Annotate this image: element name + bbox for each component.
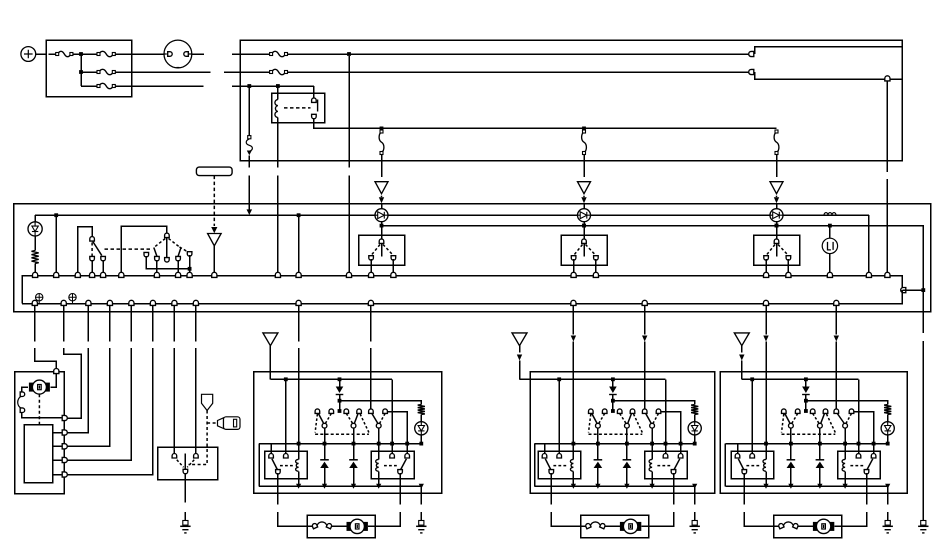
right rear window module dashed link bbox=[782, 433, 836, 435]
connector upper bus x=103.1 bbox=[101, 272, 106, 277]
wire harness bbox=[152, 305, 154, 341]
switch 3 center arm bbox=[776, 244, 778, 257]
right rear window module feed wire A bbox=[765, 305, 767, 334]
wire harness w2 bbox=[63, 305, 65, 341]
wire F2 to fuse box edge bbox=[115, 53, 132, 55]
dashed switch 2 left bbox=[574, 245, 583, 256]
main switch assembly box bbox=[14, 204, 931, 312]
wire control unit stub bbox=[53, 474, 62, 476]
left rear window module relay 2 dashed bbox=[657, 465, 671, 467]
dashed arm far right bbox=[180, 247, 189, 252]
wire row 2 resumed bbox=[224, 71, 270, 73]
right rear window module window switch bbox=[804, 409, 808, 413]
wire right feed lower bbox=[886, 179, 888, 276]
fuse F8 bbox=[582, 132, 587, 153]
dashed switch 1 left bbox=[371, 245, 380, 256]
left rear window module relay 1 coil bbox=[572, 444, 574, 460]
dashed knob link left bbox=[177, 460, 184, 468]
front passenger window module control feed line bbox=[270, 378, 392, 380]
right rear window module dashed blade 2 bbox=[813, 414, 819, 424]
ignition switch SW1 bbox=[164, 40, 192, 68]
dashed knob link right bbox=[187, 460, 194, 468]
connector upper bus x=868.9 bbox=[866, 272, 871, 277]
wire receiver to bus bbox=[213, 246, 215, 276]
wire into diode 1 bbox=[381, 204, 383, 209]
window lock center arm bbox=[166, 238, 168, 257]
front passenger window module wire to switch center bbox=[339, 401, 341, 410]
right rear window module wire to switch center bbox=[805, 401, 807, 410]
front passenger window module dashed link bbox=[315, 433, 369, 435]
right rear window module inner unit top edge bbox=[725, 443, 887, 445]
lower bus wire bbox=[22, 290, 902, 304]
right rear window module page connector bbox=[734, 333, 749, 346]
wire battery to fuse box bbox=[36, 53, 47, 55]
left rear window module relay 2 blade bbox=[674, 459, 680, 470]
front passenger window module feed wire A bbox=[298, 305, 300, 341]
right rear window module LED drop bbox=[887, 435, 889, 444]
front passenger window module bus junction bbox=[322, 484, 327, 489]
right rear window module feed diode bbox=[805, 379, 807, 386]
connector lower bus x=836.3 bbox=[834, 300, 839, 305]
right rear window module relay 2 dashed bbox=[850, 465, 864, 467]
battery B1 bbox=[21, 47, 36, 62]
arrow into switch panel 2 bbox=[583, 196, 585, 198]
wire into switch 1 bbox=[381, 226, 383, 241]
right rear window module motor wire left bbox=[743, 473, 745, 504]
front passenger window module circuit breaker bbox=[317, 522, 327, 527]
left rear window module wire contact jog bbox=[661, 412, 681, 455]
right rear window module relay 2 coil bbox=[844, 444, 846, 460]
left rear window module circuit breaker bbox=[590, 522, 600, 527]
window switch box 1 bbox=[359, 235, 405, 265]
wire motor to switch bbox=[22, 387, 28, 392]
key symbol bbox=[218, 418, 224, 429]
left rear window module blade 1 bbox=[592, 414, 597, 424]
right rear window module relay 1 coil bbox=[765, 444, 767, 460]
junction fuse drop 2 bbox=[582, 127, 586, 131]
connector lower bus x=766.0 bbox=[763, 300, 768, 305]
left rear window module pivot 1 drop bbox=[597, 428, 599, 444]
buzzer bbox=[829, 226, 831, 239]
illumination LED D1 bbox=[34, 215, 36, 222]
receiver symbol bbox=[208, 234, 222, 246]
left rear window module feed diode bbox=[612, 379, 614, 386]
wire right feed upper bbox=[886, 81, 888, 172]
front passenger window module pivot 3 drop bbox=[378, 428, 380, 444]
left rear window module dashed leg right bbox=[634, 414, 643, 433]
left rear window module blade 2 bbox=[628, 414, 632, 424]
wire row 2 harness lower bbox=[755, 72, 903, 79]
connector upper bus x=92.1 bbox=[90, 272, 95, 277]
connector lower bus x=644.7 bbox=[642, 300, 647, 305]
left rear window module bus junction bbox=[624, 484, 629, 489]
connector bus right bbox=[901, 288, 906, 293]
right rear window module feed wire B bbox=[835, 305, 837, 334]
left rear window module relay 2 coil bbox=[651, 444, 653, 460]
ground G5 bbox=[921, 521, 926, 526]
left rear window module pivot 3 drop bbox=[651, 428, 653, 444]
wire far contact to bus bbox=[189, 255, 191, 276]
door lock motor M1 bbox=[29, 383, 34, 392]
wire resistor to bus bbox=[34, 264, 36, 276]
left rear window module resistor bbox=[691, 405, 698, 415]
fuse F7 bbox=[379, 132, 384, 153]
fuse F6 bbox=[272, 69, 286, 74]
front passenger window module motor wire right bbox=[399, 473, 401, 504]
left rear window module wire to relay 1 contact bbox=[558, 379, 560, 455]
dashed lock switch drop bbox=[91, 243, 93, 257]
front passenger window module wire to relay 2 contact bbox=[391, 379, 393, 455]
wire breaker down lower bbox=[248, 175, 250, 209]
left rear window module blade 3 bbox=[646, 414, 652, 424]
front passenger window module dashed leg left bbox=[315, 414, 317, 433]
left rear window module control feed line bbox=[520, 378, 666, 380]
front passenger window module inner unit bottom edge bbox=[259, 485, 421, 487]
wire switch 3 left contact to bus bbox=[765, 259, 767, 276]
front passenger window module relay 1 blade bbox=[272, 459, 277, 470]
connector door top bbox=[54, 369, 59, 374]
wire row 1 to right connector bbox=[288, 53, 750, 55]
connector upper bus x=35.1 bbox=[33, 272, 38, 277]
connector upper bus x=887.4 bbox=[885, 272, 890, 277]
front passenger window module page connector bbox=[263, 333, 278, 346]
wire fuse 3 down bbox=[776, 155, 778, 178]
dashed arm right bbox=[169, 239, 180, 248]
connector upper bus x=178.1 bbox=[176, 272, 181, 277]
front passenger window module pivot 1 drop bbox=[324, 428, 326, 444]
left rear window module feed wire B bbox=[644, 305, 646, 334]
front passenger window module resistor bbox=[418, 405, 425, 415]
wire control unit stub bbox=[53, 459, 62, 461]
wire row 3 resumed bbox=[232, 85, 314, 87]
knob switch arm bbox=[184, 454, 186, 469]
left rear window module dashed blade 2 bbox=[620, 414, 626, 424]
connector lower bus x=298.6 bbox=[296, 300, 301, 305]
right rear window module pivot 1 drop bbox=[790, 428, 792, 444]
right rear window module inner unit left edge bbox=[724, 444, 726, 487]
wire to F4 bbox=[81, 85, 97, 87]
connector upper bus x=56.2 bbox=[54, 272, 59, 277]
dashed arm left bbox=[155, 239, 166, 248]
left rear window module wire to illumination bbox=[613, 401, 695, 405]
front passenger window module blade 2 bbox=[354, 414, 358, 424]
illumination feed line bbox=[35, 214, 869, 216]
left rear window module motor wire left bbox=[550, 473, 552, 504]
door lock control unit bbox=[24, 425, 52, 483]
junction drop to bus bbox=[297, 213, 301, 217]
connector upper bus x=829.9 bbox=[827, 272, 832, 277]
front passenger window module dashed blade 2 bbox=[346, 414, 352, 424]
right rear window module pivot 2 drop bbox=[819, 428, 821, 444]
front passenger window module relay 1 box bbox=[265, 451, 308, 479]
window lock blade left bbox=[154, 248, 157, 257]
arrow into switch panel 3 bbox=[776, 196, 778, 198]
wire control unit stub bbox=[53, 432, 62, 434]
front passenger window module inner unit left edge bbox=[258, 444, 260, 487]
wire motor feed bbox=[51, 374, 57, 387]
connector upper bus x=298.6 bbox=[296, 272, 301, 277]
window switch box 2 bbox=[561, 235, 607, 265]
right rear window module pivot 3 drop bbox=[844, 428, 846, 444]
front passenger window module relay 1 left contact wire bbox=[270, 444, 272, 455]
connector lower bus x=34.8 bbox=[32, 300, 37, 305]
wire harness w8 bbox=[195, 305, 197, 341]
driver lock switch bbox=[78, 227, 92, 276]
wire into switch 2 bbox=[583, 226, 585, 241]
right rear window module blade 1 bbox=[785, 414, 790, 424]
wire right ground drop upper bbox=[922, 290, 924, 333]
front passenger window module dashed blade 3 bbox=[380, 414, 386, 424]
wire row 1 to ignition switch bbox=[132, 53, 164, 55]
front passenger window module relay 1 coil bbox=[298, 444, 300, 460]
wire F1 to F2 bbox=[73, 53, 97, 55]
window lock switch bbox=[121, 226, 167, 276]
relay coil L1 bbox=[277, 86, 279, 100]
connector upper bus x=349.0 bbox=[346, 272, 351, 277]
power window relay bbox=[272, 93, 325, 123]
left rear window module page connector bbox=[512, 333, 527, 346]
right rear window module dashed leg right bbox=[827, 414, 836, 433]
door lock knob switch box bbox=[158, 447, 218, 480]
relay contact arm bbox=[312, 98, 317, 103]
dashed relay link bbox=[284, 107, 311, 109]
wire switch 1 right contact to bus bbox=[392, 259, 394, 276]
wire diode 2 drop bbox=[583, 222, 585, 226]
right rear window module bus junction bbox=[885, 484, 890, 489]
right rear window module bus junction bbox=[788, 484, 793, 489]
right rear window module bus junction bbox=[843, 484, 848, 489]
wire row 1 to connector gap bbox=[192, 53, 204, 55]
arrow into switch panel 1 bbox=[381, 196, 383, 198]
wire relay coil to bus bbox=[277, 123, 279, 167]
diode common line bbox=[382, 226, 924, 291]
right rear window module inner unit bottom edge bbox=[725, 485, 887, 487]
wire crossover bbox=[146, 256, 189, 269]
fuse F1 bbox=[58, 51, 71, 56]
wire row 3 into relay bbox=[313, 86, 315, 99]
junction diode 3 bbox=[775, 224, 779, 228]
front passenger window module LED drop bbox=[420, 435, 422, 444]
front passenger window module bus junction bbox=[296, 484, 301, 489]
wire row 1 harness upper bbox=[755, 47, 903, 54]
dashed switch 2 right bbox=[586, 245, 596, 256]
left rear window module bus junction bbox=[692, 484, 697, 489]
junction right drop bbox=[921, 288, 925, 292]
front passenger window module motor box bbox=[307, 515, 375, 538]
wire into diode 3 bbox=[776, 204, 778, 209]
connector lower bus x=152.9 bbox=[150, 300, 155, 305]
arrow remote signal bbox=[213, 226, 215, 228]
connector lower bus x=174.4 bbox=[172, 300, 177, 305]
connector symbol drop 3 bbox=[770, 182, 783, 194]
left rear window module bus junction bbox=[650, 484, 655, 489]
wire fuse 2 down bbox=[583, 155, 585, 178]
left rear window module clamp diode 2 bbox=[626, 444, 628, 460]
wire lock contact 2 to bus bbox=[102, 260, 104, 276]
connector door edge bbox=[62, 415, 67, 420]
front passenger window module blade 3 bbox=[372, 414, 378, 424]
front passenger window module motor wire left bbox=[277, 473, 279, 504]
left rear window module dashed blade 1 bbox=[599, 414, 605, 424]
front passenger window module relay 2 dashed bbox=[384, 465, 398, 467]
wire switch 2 right contact to bus bbox=[595, 259, 597, 276]
front passenger window module pivot 2 drop bbox=[353, 428, 355, 444]
junction row 2 bbox=[79, 70, 83, 74]
connector upper bus x=77.8 bbox=[75, 272, 80, 277]
wire diode 3 drop bbox=[776, 222, 778, 226]
junction crossover bbox=[188, 267, 192, 271]
connector row 1 bbox=[749, 51, 754, 56]
connector lower bus x=131.4 bbox=[129, 300, 134, 305]
wire fuse box row 1 left bbox=[48, 53, 55, 55]
switch 2 center arm bbox=[583, 244, 585, 257]
connector upper bus x=573.6 bbox=[571, 272, 576, 277]
upper bus wire bbox=[22, 276, 902, 304]
connector upper bus x=766.1 bbox=[764, 272, 769, 277]
left rear window module relay 1 blade bbox=[545, 459, 550, 470]
wire row 3 to connector gap bbox=[132, 85, 204, 87]
wire to F3 bbox=[81, 71, 97, 73]
right rear window module dashed blade 1 bbox=[792, 414, 798, 424]
left rear window module window motor bbox=[620, 522, 625, 531]
connector lower bus x=370.9 bbox=[368, 300, 373, 305]
connector upper bus x=189.6 bbox=[187, 272, 192, 277]
door key cylinder bbox=[202, 394, 213, 410]
left rear window module dashed blade 3 bbox=[653, 414, 659, 424]
front passenger window module relay 2 box bbox=[371, 451, 414, 479]
right rear window module bus junction bbox=[763, 484, 768, 489]
fuse F2 bbox=[99, 51, 113, 56]
right rear window module circuit breaker bbox=[783, 522, 793, 527]
connector door edge bbox=[62, 472, 67, 477]
wire switch 3 right contact to bus bbox=[787, 259, 789, 276]
right rear window module relay 1 blade bbox=[738, 459, 743, 470]
right rear window module wire to relay 2 contact bbox=[858, 379, 860, 455]
right rear window module box bbox=[720, 372, 907, 493]
junction row 3 relay coil bbox=[276, 84, 280, 88]
connector upper bus x=156.9 bbox=[154, 272, 159, 277]
front passenger window module dashed leg right bbox=[360, 414, 369, 433]
wire row-1 drop to bus bbox=[348, 56, 350, 167]
left rear window module wire to relay 2 contact bbox=[665, 379, 667, 455]
left rear window module illumination LED bbox=[688, 422, 701, 435]
front passenger window module window switch bbox=[338, 409, 342, 413]
dashed switch 3 left bbox=[766, 245, 775, 256]
connector lower bus x=573.4 bbox=[571, 300, 576, 305]
connector lower bus x=195.9 bbox=[193, 300, 198, 305]
wire into diode 2 bbox=[583, 204, 585, 209]
front passenger window module clamp diode 1 bbox=[324, 444, 326, 460]
right rear window module resistor bbox=[884, 405, 891, 415]
front passenger window module wire contact jog bbox=[387, 412, 407, 455]
ground G1 bbox=[183, 521, 188, 526]
junction fuse drop 1 bbox=[380, 127, 384, 131]
fuse F3 bbox=[99, 69, 113, 74]
illumination diode D3 bbox=[578, 209, 591, 222]
window switch box 3 bbox=[754, 235, 800, 265]
wire harness w1 bbox=[34, 305, 36, 341]
connector door edge bbox=[62, 430, 67, 435]
wire fuse box vertical feed bbox=[80, 54, 82, 86]
right rear window module relay 2 box bbox=[838, 451, 881, 479]
right rear window module window motor bbox=[813, 522, 818, 531]
right rear window module ground bbox=[885, 521, 890, 526]
wire relay output bbox=[314, 118, 777, 129]
connector right feed drop bbox=[885, 76, 890, 81]
dashed switch 1 right bbox=[383, 245, 393, 256]
right rear window module relay 2 blade bbox=[867, 459, 873, 470]
dashed key link branch bbox=[207, 422, 217, 424]
connector lower bus x=63.7 bbox=[61, 300, 66, 305]
right rear window module motor wire right bbox=[866, 473, 868, 504]
dashed motor link bbox=[38, 394, 40, 425]
window lock blade right bbox=[178, 248, 181, 257]
connector upper bus x=277.9 bbox=[275, 272, 280, 277]
front passenger window module inner unit top edge bbox=[259, 443, 421, 445]
connector row 2 bbox=[749, 69, 754, 74]
front passenger window module box bbox=[254, 372, 442, 493]
front passenger window module wire to illumination bbox=[340, 401, 422, 405]
connector upper bus x=214.3 bbox=[212, 272, 217, 277]
right rear window module dashed leg left bbox=[782, 414, 784, 433]
junction row 1 bbox=[79, 52, 83, 56]
illumination diode D2 bbox=[375, 209, 388, 222]
right rear window module blade 2 bbox=[821, 414, 825, 424]
left rear window module inner unit left edge bbox=[534, 444, 536, 487]
dashed mechanical link bbox=[105, 248, 152, 250]
connector lower bus x=88.4 bbox=[86, 300, 91, 305]
right rear window module illumination LED bbox=[881, 422, 894, 435]
wire diode 1 drop bbox=[381, 222, 383, 226]
right rear window module bus junction bbox=[817, 484, 822, 489]
lock switch blade bbox=[93, 242, 102, 256]
left rear window module ground bbox=[692, 521, 697, 526]
wire harness bbox=[109, 305, 111, 341]
front passenger window module relay 1 dashed bbox=[280, 465, 294, 467]
left rear window module motor wire right bbox=[673, 473, 675, 504]
front passenger window module bus junction bbox=[376, 484, 381, 489]
resistor R1 bbox=[32, 251, 39, 264]
wire fuse 1 down bbox=[381, 155, 383, 178]
arrow breaker wire end bbox=[248, 208, 250, 210]
fuse box bbox=[46, 40, 131, 97]
right rear window module relay 1 left contact wire bbox=[737, 444, 739, 455]
left rear window module feed wire A bbox=[572, 305, 574, 334]
door lock position switch bbox=[20, 392, 25, 397]
right rear window module blade 3 bbox=[837, 414, 844, 424]
wire F3 to fuse box edge bbox=[115, 71, 132, 73]
front passenger window module bus junction bbox=[419, 484, 424, 489]
left rear window module bus junction bbox=[595, 484, 600, 489]
connector door edge bbox=[62, 444, 67, 449]
left rear window module ground wire bbox=[694, 486, 696, 504]
dashed key link bbox=[189, 411, 208, 465]
connector upper bus x=788.4 bbox=[786, 272, 791, 277]
under-dash fuse/relay box bbox=[240, 40, 902, 161]
right rear window module clamp diode 1 bbox=[790, 444, 792, 460]
right rear window module wire to relay 1 contact bbox=[751, 379, 753, 455]
front passenger window module illumination LED bbox=[415, 422, 428, 435]
driver door lock assembly box bbox=[15, 372, 64, 494]
connector symbol drop 1 bbox=[375, 182, 388, 194]
wire to ground bbox=[184, 512, 186, 521]
wire lock contact 1 to bus bbox=[91, 260, 93, 276]
front passenger window module relay 2 blade bbox=[401, 459, 407, 470]
junction buzzer bbox=[828, 224, 832, 228]
wire harness bbox=[87, 305, 89, 341]
capacitor/noise symbol bbox=[69, 294, 76, 301]
connector door edge bbox=[62, 457, 67, 462]
